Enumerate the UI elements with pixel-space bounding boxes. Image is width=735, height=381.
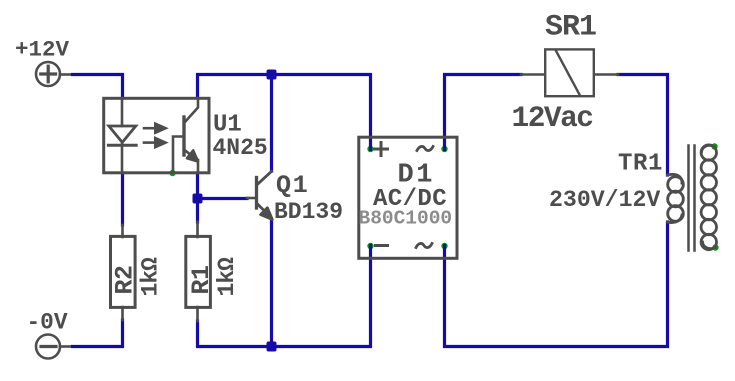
resistor R1 body: [186, 236, 211, 307]
D1 pin dot ac top: [441, 146, 447, 152]
U1 emitter line: [197, 160, 200, 173]
svg-text:Q1: Q1: [276, 171, 310, 200]
wire +12V to LED anode: [73, 75, 123, 99]
D1 ac mark bottom: [416, 243, 432, 247]
svg-text:R1: R1: [187, 265, 216, 294]
wire TR1 primary bottom to bottom rail to D1 ac bottom: [445, 222, 668, 347]
D1 pin dot plus: [367, 146, 373, 152]
D1 plus mark: [375, 143, 388, 156]
svg-text:1kΩ: 1kΩ: [214, 257, 240, 297]
optocoupler U1 box: [104, 98, 209, 173]
U1 light arrow 2: [144, 137, 168, 149]
R1 bottom stub: [196, 307, 199, 321]
wire Q1 emitter drop: [270, 220, 273, 347]
R1 top stub: [196, 222, 199, 237]
transformer TR1 primary coil: [668, 174, 684, 222]
R2 bottom stub: [121, 307, 124, 320]
wire R2 bottom to -0V: [73, 320, 123, 347]
U1 phototransistor base bar: [182, 117, 185, 155]
supply -0V symbol: [36, 335, 72, 359]
TR1 secondary pin dot top: [711, 143, 717, 149]
U1 LED anode line: [121, 99, 124, 127]
TR1 core lines: [689, 146, 695, 251]
svg-text:4N25: 4N25: [213, 135, 268, 161]
Q1 emitter diagonal: [258, 204, 265, 211]
svg-text:BD139: BD139: [274, 199, 343, 225]
wire opto emitter to node: [196, 174, 199, 199]
svg-text:+12V: +12V: [15, 37, 70, 63]
junction base node: [193, 194, 203, 204]
svg-text:230V/12V: 230V/12V: [549, 187, 660, 213]
wire LED cathode to R2: [121, 174, 124, 225]
U1 base pin dot: [169, 170, 175, 176]
supply +12V symbol: [36, 62, 73, 86]
fuse SR1 box: [545, 49, 594, 96]
svg-text:B80C1000: B80C1000: [359, 208, 453, 230]
U1 LED cathode line: [121, 142, 124, 172]
D1 minus mark: [376, 244, 388, 247]
wire SR1 right to TR1 primary top: [618, 75, 668, 176]
TR1 secondary pin dot bottom: [712, 244, 718, 250]
wire Q1 collector drop: [270, 75, 273, 172]
SR1 right stub: [595, 73, 618, 76]
svg-text:1kΩ: 1kΩ: [138, 257, 164, 297]
D1 ac mark top: [417, 146, 433, 150]
U1 emitter arrow head: [187, 150, 198, 161]
svg-text:TR1: TR1: [618, 151, 663, 178]
svg-text:R2: R2: [111, 265, 140, 294]
U1 phototransistor emitter: [184, 150, 194, 158]
wire top rail collector to D1 plus: [198, 75, 371, 150]
TR1 secondary coil: [701, 145, 716, 250]
junction bottom rail: [267, 342, 277, 352]
D1 pin dot minus: [367, 243, 373, 249]
wire node to R1 top: [196, 199, 199, 223]
Q1 collector diagonal: [258, 171, 272, 184]
U1 LED cathode bar: [108, 144, 136, 147]
U1 phototransistor base pin: [173, 137, 183, 173]
svg-text:12Vac: 12Vac: [512, 101, 593, 135]
SR1 left stub: [521, 73, 544, 76]
wire node to Q1 base: [198, 197, 248, 200]
resistor R2 body: [111, 236, 136, 307]
R2 top stub: [121, 225, 124, 237]
U1 light arrow 1: [144, 122, 168, 134]
Q1 base bar: [255, 178, 258, 209]
transistor Q1 base stub: [247, 197, 256, 200]
wire D1 minus down to bottom rail to R1: [198, 246, 371, 347]
svg-text:SR1: SR1: [545, 11, 596, 45]
U1 phototransistor collector: [184, 99, 198, 124]
svg-text:-0V: -0V: [27, 310, 68, 336]
bridge rectifier D1 box: [359, 137, 457, 258]
wire D1 ac top to SR1 left: [445, 75, 522, 150]
U1 LED triangle: [109, 126, 136, 142]
SR1 diagonal: [556, 51, 580, 96]
D1 pin dot ac bottom: [441, 243, 447, 249]
Q1 emitter arrow head: [261, 208, 273, 220]
junction top rail: [267, 70, 277, 80]
